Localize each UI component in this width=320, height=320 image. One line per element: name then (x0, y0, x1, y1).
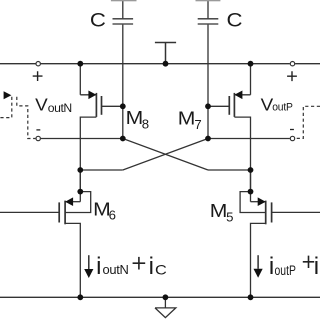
transistor M7 arrow (234, 91, 242, 100)
current arrow left (88, 255, 90, 269)
wire bottom ground rail (0, 296, 320, 298)
terminal vOutN minus (36, 136, 40, 140)
svg-text:i: i (149, 253, 154, 280)
svg-text:outN: outN (103, 262, 129, 277)
svg-text:C: C (155, 262, 167, 278)
svg-text:outN: outN (48, 101, 72, 115)
wire M7 drain down (234, 117, 250, 192)
svg-text:i: i (96, 253, 101, 280)
transistor M6 gate bar (58, 202, 60, 222)
transistor M5 channel bar (265, 201, 267, 225)
svg-text:C: C (227, 9, 243, 31)
wire cross-couple right horizontal (208, 169, 251, 171)
wire M7 source drop (250, 64, 252, 95)
wire capacitor C1 vertical / M8 gate line (122, 0, 124, 139)
wire top rail (0, 63, 320, 65)
svg-text:i: i (269, 253, 274, 280)
transistor M8 source stub (80, 94, 96, 96)
svg-text:i: i (314, 253, 319, 280)
svg-text:outP: outP (275, 263, 296, 279)
wire M6 source down (65, 223, 80, 297)
minus sign right (290, 129, 294, 131)
wire M8 gate to node (102, 105, 123, 107)
wire M5 drain up (250, 170, 252, 202)
wire M6 bulk tie (65, 192, 91, 213)
transistor M7 channel bar (233, 93, 235, 117)
ground (155, 297, 176, 317)
wire M5 source down (251, 223, 266, 297)
wire M8 source drop (79, 64, 81, 95)
wire M7 gate to node (208, 105, 229, 107)
wire M6 drain up (79, 170, 81, 202)
transistor M6 channel bar (64, 201, 66, 225)
svg-text:M: M (126, 107, 144, 128)
svg-text:5: 5 (226, 209, 233, 224)
wire cross-couple diagonal 2 (123, 139, 208, 171)
svg-text:C: C (90, 9, 106, 31)
capacitor C2 plates (198, 19, 219, 24)
wire M6 gate lead (0, 211, 59, 213)
wire vOutP minus terminal (208, 138, 290, 140)
wire M5 gate lead (272, 211, 320, 213)
current arrow right (257, 255, 259, 269)
wire capacitor C2 vertical / M7 gate line (207, 0, 209, 139)
dashed source arrow left (4, 91, 12, 99)
dashed wire left inner (17, 97, 36, 139)
svg-text:M: M (178, 108, 196, 129)
wire vOutN minus terminal (41, 138, 123, 140)
capacitor C1 plates (113, 19, 134, 24)
grey crop remnant left (111, 0, 137, 1)
transistor M6 arrow (65, 197, 73, 206)
terminal vOutP minus (290, 136, 294, 140)
transistor M5 gate bar (271, 202, 273, 222)
terminal vOutN plus (36, 62, 40, 66)
transistor M8 gate bar (101, 96, 103, 115)
minus sign left (36, 129, 40, 131)
plus sign left (33, 71, 43, 81)
dashed wire right (295, 106, 320, 138)
bias T symbol (155, 43, 176, 64)
transistor M8 channel bar (95, 93, 97, 117)
wire M5 bulk tie (240, 192, 266, 213)
wire cross-couple left horizontal (80, 169, 123, 171)
transistor M7 gate bar (228, 96, 230, 115)
dashed wire left outer (0, 97, 12, 118)
svg-text:V: V (35, 94, 48, 114)
transistor M6 drain stub (65, 201, 80, 203)
svg-text:8: 8 (142, 116, 149, 131)
wire cross-couple diagonal 1 (123, 139, 208, 171)
svg-text:M: M (210, 200, 228, 221)
svg-text:7: 7 (194, 117, 201, 132)
transistor M5 drain stub (251, 201, 266, 203)
wire M8 drain down (80, 117, 96, 192)
transistor M8 arrow (88, 91, 96, 100)
transistor M7 source stub (234, 94, 250, 96)
grey crop remnant right (196, 0, 221, 1)
svg-text:outP: outP (272, 102, 293, 114)
terminal vOutP plus (290, 62, 294, 66)
transistor M5 arrow (258, 197, 266, 206)
svg-text:6: 6 (109, 208, 116, 223)
plus sign right (287, 71, 297, 81)
